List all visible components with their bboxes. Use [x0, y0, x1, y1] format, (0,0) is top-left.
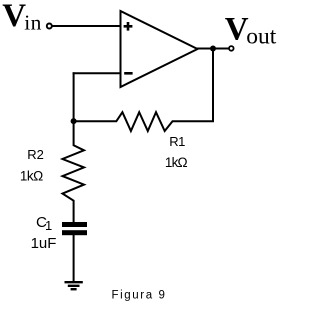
svg-text:in: in [24, 10, 42, 34]
svg-text:R2: R2 [27, 147, 44, 162]
svg-text:R1: R1 [169, 134, 185, 149]
svg-text:1: 1 [45, 218, 52, 233]
svg-text:V: V [225, 12, 249, 48]
svg-text:out: out [246, 23, 276, 49]
svg-text:1kΩ: 1kΩ [20, 168, 43, 183]
svg-text:V: V [2, 0, 26, 34]
svg-text:Figura 9: Figura 9 [112, 290, 167, 302]
svg-text:1uF: 1uF [31, 235, 57, 252]
svg-text:1kΩ: 1kΩ [165, 155, 188, 170]
